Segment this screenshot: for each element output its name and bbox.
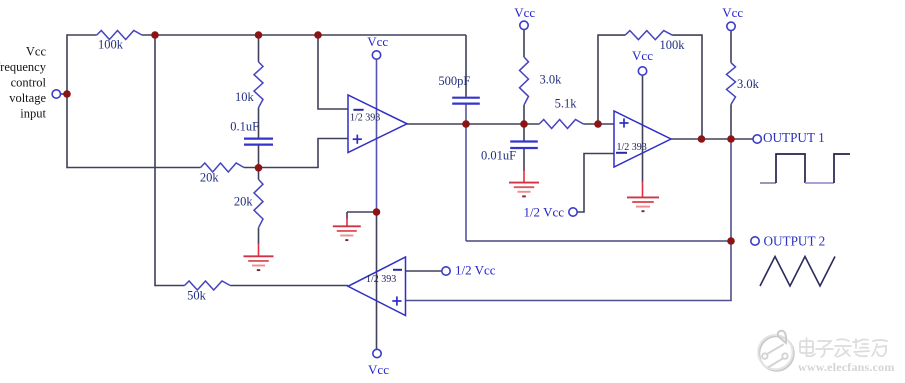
resistor R1 100k xyxy=(97,31,142,40)
wire to U1 minus input xyxy=(318,35,348,109)
wire 20k to corner xyxy=(244,167,319,169)
resistor R7 3.0k xyxy=(520,57,529,105)
resistor R4 20k xyxy=(254,179,263,227)
resistor R3 20k xyxy=(201,163,245,172)
wire 10k to 0.1uF xyxy=(258,108,260,138)
terminal OUTPUT 2 xyxy=(751,237,759,245)
ground stub G3 xyxy=(523,170,525,183)
wire rail down to 500pF xyxy=(465,35,467,97)
terminal 1/2 Vcc U2 xyxy=(569,208,577,216)
svg-text:3.0k: 3.0k xyxy=(540,73,563,87)
wire 20k to ground stub xyxy=(258,228,260,244)
wire feedback right xyxy=(672,35,702,139)
U3 minus bar xyxy=(393,269,402,271)
U1 minus bar xyxy=(353,109,363,111)
junction node 0.1uF/20k xyxy=(255,164,263,172)
resistor R5 50k xyxy=(185,281,231,290)
wire gnd node to G2 xyxy=(347,211,377,213)
watermark chinese text xyxy=(800,338,887,357)
svg-text:voltage: voltage xyxy=(9,91,46,105)
svg-text:1/2 393: 1/2 393 xyxy=(350,113,380,124)
resistor R6 5.1k xyxy=(539,120,583,129)
wire 0.01uF to stub xyxy=(523,149,525,172)
ground G1 xyxy=(244,255,274,257)
svg-text:input: input xyxy=(20,107,46,121)
terminal 1/2 Vcc U3 xyxy=(442,267,450,275)
wire 50k row left xyxy=(155,285,185,287)
wire top rail left stub xyxy=(67,34,97,36)
svg-text:5.1k: 5.1k xyxy=(555,97,578,111)
capacitor C1 500pF xyxy=(452,97,480,99)
svg-text:3.0k: 3.0k xyxy=(737,77,760,91)
wire 500pF down to OUTPUT2 row xyxy=(465,104,467,241)
wire mid vertical x155 xyxy=(154,35,156,286)
wire U2 output row xyxy=(671,138,753,140)
wire 5.1k to U2 plus xyxy=(583,123,614,125)
waveform square wave OUTPUT 1 xyxy=(760,182,776,184)
svg-text:1/2 393: 1/2 393 xyxy=(617,142,647,153)
wire 50k row to U3 output xyxy=(230,285,348,287)
svg-text:control: control xyxy=(11,76,47,90)
U3 plus sign xyxy=(392,300,401,302)
ground stub G1 xyxy=(258,243,260,256)
waveform triangle wave OUTPUT 2 xyxy=(760,257,835,287)
junction node U1 out / 500pF xyxy=(462,120,470,128)
terminal Vcc U3 xyxy=(373,349,381,357)
resistor R9 3.0k xyxy=(727,63,736,105)
wire row to 20k xyxy=(67,167,201,169)
svg-text:100k: 100k xyxy=(98,38,124,52)
ground stub G4 xyxy=(642,181,644,197)
wire U1 gnd node to U3 power pin xyxy=(376,212,378,349)
op-amp U2 1/2 393 xyxy=(614,111,671,167)
junction node OUTPUT2 xyxy=(727,237,735,245)
terminal Vcc U1 xyxy=(372,51,380,59)
svg-text:20k: 20k xyxy=(234,195,254,209)
resistor R8 100k feedback xyxy=(625,31,672,40)
wire input stub xyxy=(59,93,67,95)
wire top rail to 10k xyxy=(258,35,260,62)
svg-text:0.01uF: 0.01uF xyxy=(481,149,516,163)
svg-text:50k: 50k xyxy=(187,289,207,303)
wire Vcc to 3.0k left xyxy=(523,30,525,58)
wire U2 power pin xyxy=(642,75,644,182)
watermark logo xyxy=(758,331,794,371)
ground G2 xyxy=(333,225,361,227)
wire U3 minus to 1/2 Vcc xyxy=(406,270,443,272)
svg-text:1/2 393: 1/2 393 xyxy=(366,274,396,285)
ground G3 xyxy=(509,182,539,184)
svg-text:OUTPUT 2: OUTPUT 2 xyxy=(764,234,826,249)
terminal input xyxy=(52,90,60,98)
junction node OUTPUT1 xyxy=(727,135,735,143)
wire U2 minus to 1/2 Vcc xyxy=(577,154,614,213)
resistor R2 10k xyxy=(254,62,263,108)
ground G4 xyxy=(627,196,659,198)
junction node feedback/out xyxy=(698,135,706,143)
svg-text:Vcc: Vcc xyxy=(722,5,743,20)
svg-text:20k: 20k xyxy=(200,171,220,185)
junction node rail/100k xyxy=(151,31,159,39)
wire 3.0k right down xyxy=(730,104,732,139)
wire feedback left xyxy=(598,35,625,124)
svg-text:500pF: 500pF xyxy=(438,74,470,88)
wire to U1 plus input xyxy=(318,139,348,168)
wire to U3 plus input xyxy=(406,241,732,301)
wire OUTPUT1 node down xyxy=(730,139,732,241)
U1 plus sign xyxy=(353,138,362,140)
terminal Vcc 3.0k right xyxy=(727,22,735,30)
junction node input xyxy=(63,90,71,98)
wire top rail xyxy=(142,34,466,36)
capacitor C3 0.01uF xyxy=(510,140,538,142)
wire U1 out row xyxy=(407,123,539,125)
junction node 3.0k/0.01uF xyxy=(520,120,528,128)
svg-text:0.1uF: 0.1uF xyxy=(230,120,259,134)
wire 3.0k to node xyxy=(523,105,525,141)
svg-text:Vcc: Vcc xyxy=(514,5,535,20)
capacitor C2 0.1uF xyxy=(244,138,273,140)
terminal Vcc U2 xyxy=(638,67,646,75)
wire Vcc to 3.0k right xyxy=(730,31,732,63)
junction node gnd pins xyxy=(373,208,381,216)
svg-text:10k: 10k xyxy=(235,90,255,104)
svg-text:OUTPUT 1: OUTPUT 1 xyxy=(763,130,825,145)
svg-text:1/2 Vcc: 1/2 Vcc xyxy=(523,205,564,220)
terminal OUTPUT 1 xyxy=(753,135,761,143)
junction node rail/U1 minus xyxy=(314,31,322,39)
svg-text:www.elecfans.com: www.elecfans.com xyxy=(798,360,895,374)
op-amp U1 1/2 393 xyxy=(348,95,407,153)
wire G2 stub upper xyxy=(346,212,348,219)
wire left vertical xyxy=(66,34,68,168)
svg-text:Vcc: Vcc xyxy=(26,45,47,59)
wire U1 Vcc pin xyxy=(376,60,378,213)
U2 plus sign xyxy=(619,122,628,124)
ground stub G2 xyxy=(346,218,348,226)
junction node rail/10k xyxy=(255,31,263,39)
wire OUTPUT2 row xyxy=(466,240,731,242)
svg-text:Vcc: Vcc xyxy=(632,48,653,63)
junction node 5.1k/feedback xyxy=(594,120,602,128)
terminal Vcc 3.0k left xyxy=(520,21,528,29)
svg-text:1/2 Vcc: 1/2 Vcc xyxy=(455,263,496,278)
svg-text:100k: 100k xyxy=(660,38,686,52)
op-amp U3 1/2 393 xyxy=(348,257,406,316)
svg-text:frequency: frequency xyxy=(0,60,47,74)
svg-text:Vcc: Vcc xyxy=(367,34,388,49)
wire 0.1uF to 20k node xyxy=(258,145,260,179)
U2 minus bar xyxy=(616,152,627,154)
svg-text:Vcc: Vcc xyxy=(368,362,389,377)
